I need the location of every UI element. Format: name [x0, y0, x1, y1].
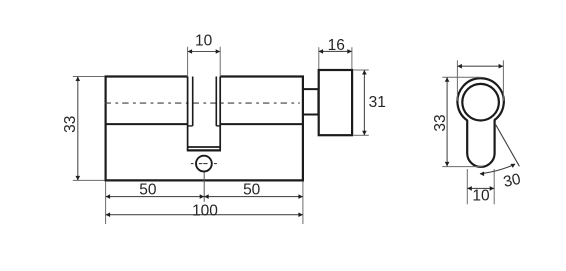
cam inner right edge [215, 77, 217, 126]
30 degree dimension arc [480, 164, 514, 173]
svg-text:16: 16 [328, 37, 345, 54]
dimension 100 line [106, 214, 303, 216]
cam slot outer right edge [219, 77, 221, 151]
dimension 50 left line [106, 196, 205, 198]
svg-text:50: 50 [243, 182, 261, 199]
svg-text:10: 10 [195, 33, 213, 50]
cylinder body outline (top edge open across cam slot) [106, 77, 303, 181]
profile outer outline [457, 78, 503, 167]
fixing screw hole [196, 156, 212, 172]
dimension 33 left line [77, 77, 79, 181]
dimension 10 (cam width) extension lines [187, 47, 189, 76]
thumbturn knob [319, 70, 352, 135]
axis centerline (dash-dot) [105, 102, 300, 104]
dimension 31 (knob height) extension lines [354, 69, 369, 71]
dimension 10 line [188, 51, 221, 53]
svg-text:33: 33 [432, 114, 449, 131]
cam bottom plate lower line [187, 149, 221, 151]
cam slot right jog [216, 125, 220, 127]
dimension 16 (knob width) extension lines [318, 47, 320, 69]
dimension 33 right line [446, 77, 448, 166]
cam bottom plate upper line [188, 146, 221, 148]
cam slot outer left edge [187, 77, 189, 151]
dimension 16 line [319, 50, 352, 52]
screw hole horizontal centerline [191, 163, 217, 165]
dimension 50 right line [204, 196, 303, 198]
barrel tangent line right segment [220, 123, 302, 125]
svg-text:100: 100 [192, 202, 218, 219]
top width dimension line (unlabelled) [457, 65, 503, 67]
dimension 31 line [363, 70, 365, 135]
top width dimension extension lines [456, 60, 458, 101]
dimension 33 left extension lines [73, 76, 105, 78]
svg-text:31: 31 [369, 94, 386, 111]
dimension 10 stem extension lines [466, 169, 468, 204]
svg-text:10: 10 [472, 188, 490, 205]
cam inner left edge [192, 77, 194, 126]
svg-text:33: 33 [62, 116, 79, 133]
thumbturn neck [303, 89, 318, 114]
30 degree slanted reference line [496, 125, 520, 167]
plug bore inner circle [462, 84, 499, 121]
dimension 33 right extension lines [442, 76, 481, 78]
svg-text:50: 50 [139, 182, 157, 199]
bottom dimension extension lines [105, 182, 107, 224]
barrel tangent line left segment [106, 123, 187, 125]
screw hole vertical centerline / middle extension [203, 173, 205, 202]
dimension 10 stem line [467, 187, 494, 189]
cam slot left jog [188, 125, 193, 127]
